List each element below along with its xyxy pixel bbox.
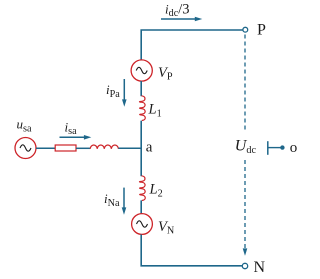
svg-text:iNa: iNa (104, 191, 120, 209)
inductor Ls coil horizontal (90, 145, 118, 149)
svg-text:usa: usa (17, 117, 32, 135)
inductor L1 coil (139, 96, 145, 121)
u_sa sine symbol (20, 145, 31, 151)
inductor L2 coil (139, 176, 145, 201)
terminal N open circle (242, 263, 247, 268)
source u_sa circle (15, 138, 36, 159)
VP sine symbol (136, 67, 147, 73)
wire source to resistor (36, 147, 55, 149)
arrow i_sa (60, 135, 92, 140)
wire bottom rail VN to terminal N (141, 235, 242, 266)
svg-text:a: a (146, 140, 153, 156)
svg-text:VN: VN (158, 219, 175, 237)
VN sine symbol (137, 221, 148, 227)
resistor R (55, 145, 76, 151)
voltage source VN circle (132, 214, 153, 235)
wire L2 to VN (140, 200, 142, 214)
arrow i_Pa (122, 79, 127, 107)
terminal o tick and lead (268, 141, 285, 155)
svg-text:o: o (290, 140, 298, 156)
dashed measurement line upper segment (244, 35, 246, 132)
voltage source VP circle (131, 60, 152, 81)
wire top rail from branch to terminal P (141, 30, 243, 61)
svg-text:Udc: Udc (235, 137, 257, 156)
dashed measurement line lower segment with arrow (243, 160, 248, 256)
svg-text:L2: L2 (149, 182, 163, 200)
svg-text:L1: L1 (148, 102, 162, 120)
wire resistor to coil (76, 147, 90, 149)
arrow i_dc/3 (161, 17, 202, 22)
arrow i_Na (122, 188, 127, 215)
svg-text:N: N (254, 259, 266, 274)
svg-text:VP: VP (158, 65, 173, 83)
wire coil to node a (118, 147, 141, 149)
wire VP to L1 (140, 81, 142, 96)
terminal P open circle (243, 27, 248, 32)
svg-text:iPa: iPa (106, 82, 120, 100)
svg-text:isa: isa (65, 119, 78, 136)
wire L1 to node a to L2 (140, 121, 142, 177)
svg-text:P: P (257, 21, 266, 38)
svg-text:idc/3: idc/3 (165, 2, 190, 19)
